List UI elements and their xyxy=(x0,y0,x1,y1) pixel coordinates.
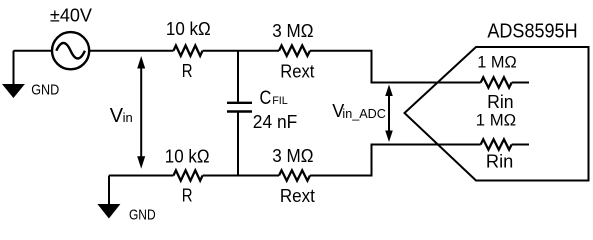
wire: Rext (bottom) to step corner, up, then right to ADC bottom input xyxy=(310,145,481,176)
resistor Rext 3 MΩ (bottom): zigzag xyxy=(279,170,310,180)
wire: Rin (bottom) right stub xyxy=(512,144,529,146)
capacitor CFIL: top lead xyxy=(237,51,239,102)
wire: R (top) to Rext (top), through capacitor junction xyxy=(203,50,279,52)
wire: top-left from ground riser to source left terminal xyxy=(14,50,53,52)
wire: Rext (top) to step corner, down, then right to ADC top input xyxy=(310,51,481,83)
svg-text:Rext: Rext xyxy=(280,61,314,81)
ground GND (top left): triangle xyxy=(2,84,25,98)
svg-text:1 MΩ: 1 MΩ xyxy=(476,111,516,130)
bottom rail: left end to R (bottom) xyxy=(109,175,174,177)
capacitor CFIL: bottom lead xyxy=(237,113,239,176)
source V1 ±40V: circle xyxy=(52,32,89,69)
svg-text:FIL: FIL xyxy=(272,95,288,107)
arrow Vin (double-headed between rails) xyxy=(140,65,142,160)
wire: Rin (top) right stub xyxy=(512,82,529,84)
arrow Vin_ADC (double-headed between ADC inputs) xyxy=(388,92,390,134)
svg-text:10 kΩ: 10 kΩ xyxy=(165,146,210,166)
wire: source right terminal to resistor R (top) xyxy=(89,50,173,52)
svg-text:GND: GND xyxy=(31,82,59,99)
resistor R1 10 kΩ (top): zigzag xyxy=(174,46,203,56)
svg-text:Rin: Rin xyxy=(486,152,513,172)
svg-text:3 MΩ: 3 MΩ xyxy=(272,146,313,166)
svg-text:3 MΩ: 3 MΩ xyxy=(272,21,313,41)
resistor R2 10 kΩ (bottom): zigzag xyxy=(174,170,203,180)
svg-text:Rin: Rin xyxy=(487,92,513,112)
op-amp U1 ADS8595H: outline polygon xyxy=(405,47,589,181)
svg-text:V: V xyxy=(110,105,124,127)
ground GND (bottom): triangle xyxy=(97,204,120,219)
svg-text:24 nF: 24 nF xyxy=(253,112,298,132)
svg-text:R: R xyxy=(182,186,193,206)
resistor Rin 1 MΩ (top): zigzag xyxy=(481,77,512,87)
svg-text:10 kΩ: 10 kΩ xyxy=(166,19,211,39)
svg-text:C: C xyxy=(260,88,272,109)
resistor Rext 3 MΩ (top): zigzag xyxy=(279,46,310,56)
capacitor CFIL: top plate xyxy=(227,102,252,104)
svg-text:in_ADC: in_ADC xyxy=(342,106,385,121)
svg-text:R: R xyxy=(182,61,193,81)
svg-text:Rext: Rext xyxy=(280,186,315,206)
ground GND (bottom): riser xyxy=(108,176,110,205)
svg-text:GND: GND xyxy=(129,207,156,224)
capacitor CFIL: bottom plate xyxy=(227,110,252,112)
wire: R (bottom) to Rext (bottom), through capacitor junction xyxy=(203,175,279,177)
svg-text:1 MΩ: 1 MΩ xyxy=(477,52,517,71)
resistor Rin 1 MΩ (bottom): zigzag xyxy=(481,139,512,149)
svg-text:ADS8595H: ADS8595H xyxy=(487,21,577,43)
ground GND (top left): riser xyxy=(13,51,15,85)
source V1: sine wave xyxy=(56,43,85,58)
svg-text:in: in xyxy=(123,110,133,125)
svg-text:±40V: ±40V xyxy=(50,6,92,26)
